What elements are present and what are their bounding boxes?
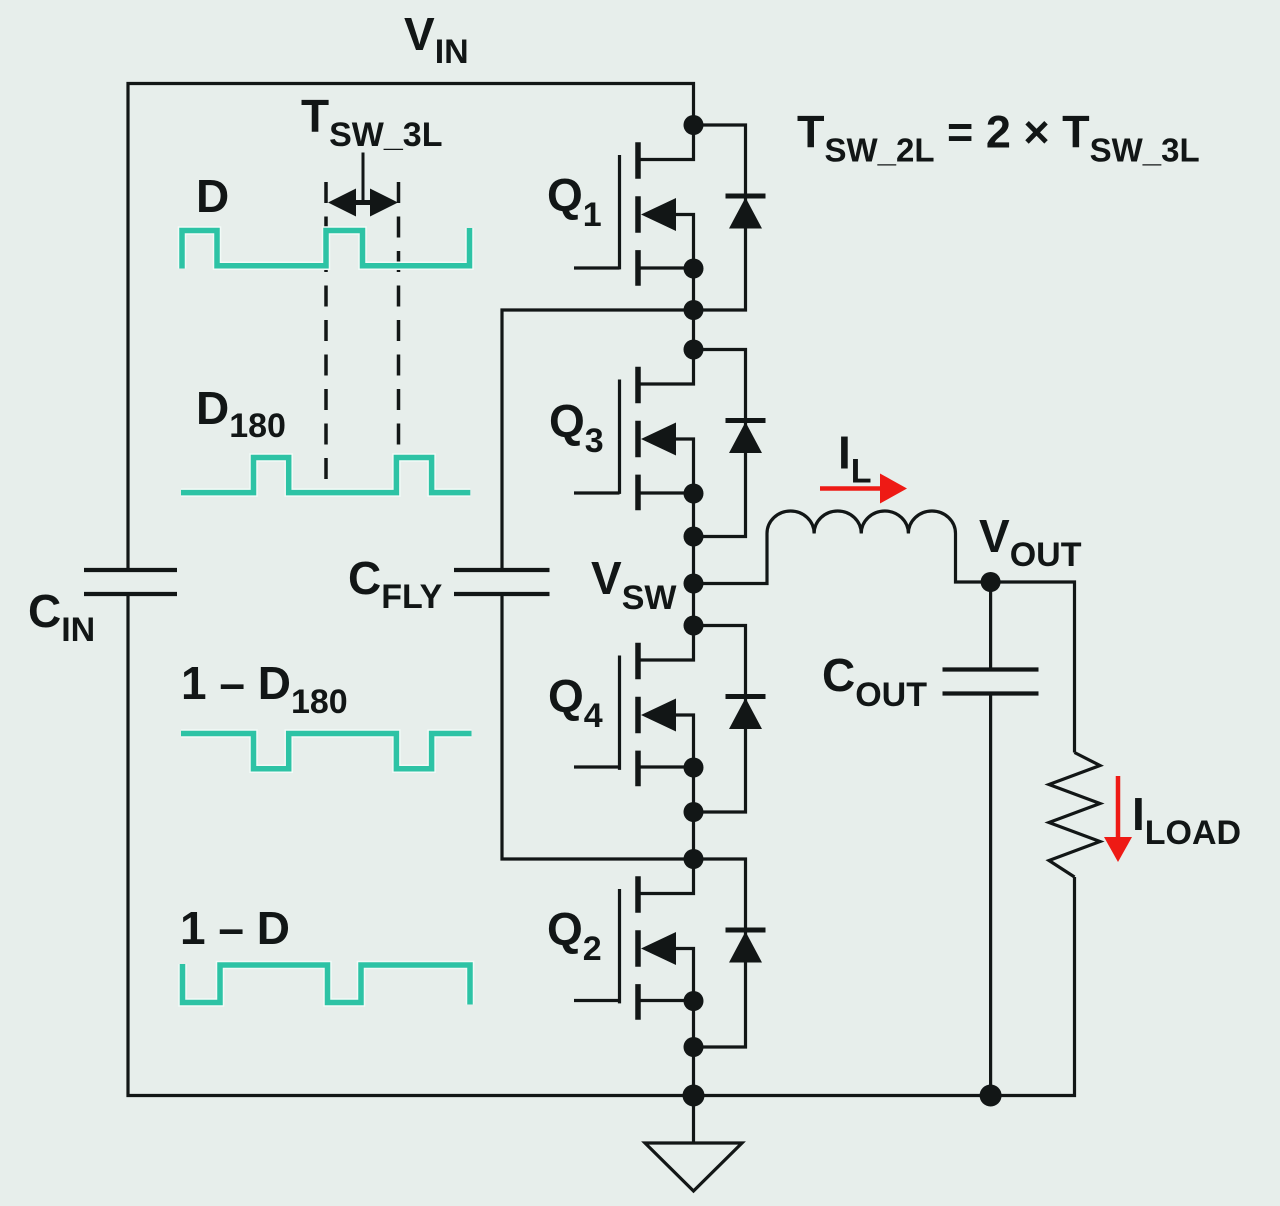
svg-text:1 – D: 1 – D [180, 902, 290, 954]
node Q2 source [684, 991, 704, 1011]
transistor Q2 [574, 859, 694, 1020]
wire Q4 diode junction to CFLY bottom node [692, 812, 695, 859]
node Q3 source [684, 484, 704, 504]
transistor Q1 [574, 125, 694, 286]
node ground rail [683, 1085, 705, 1107]
node CFLY top junction [684, 300, 704, 320]
wire VOUT node to load branch [991, 582, 1075, 753]
node Q4 source [684, 758, 704, 778]
wire COUT vertical upper [989, 582, 992, 670]
node Q2 drain (CFLY bottom) [684, 849, 704, 869]
capacitor CIN [84, 570, 177, 594]
wire Q1 source to CFLY top node [692, 269, 695, 311]
resistor load [1049, 753, 1100, 878]
node Q1 source [684, 259, 704, 279]
waveform 1-D [183, 964, 471, 1005]
wire CFLY top branch [502, 310, 694, 570]
transistor Q4 [574, 626, 694, 787]
body diode of Q1 [694, 125, 766, 310]
pointer line TSW_3L label [362, 153, 365, 204]
wire VSW node to Q4 drain [692, 584, 695, 626]
double arrow TSW_3L [328, 189, 398, 217]
current arrow IL [820, 474, 907, 504]
wire Q2 diode junction to ground rail [692, 1047, 695, 1096]
wire COUT vertical lower [989, 694, 992, 1096]
waveform D180 [181, 458, 470, 493]
waveform D [182, 228, 470, 269]
wire CFLY bottom branch [502, 594, 694, 859]
capacitor CFLY [454, 570, 550, 594]
body diode of Q3 [694, 350, 766, 537]
wire bottom ground rail [128, 594, 1075, 1096]
waveform 1-D180 [181, 734, 472, 769]
body diode of Q4 [694, 626, 766, 813]
wire VIN top rail [128, 84, 694, 571]
dashed line TSW right [397, 182, 401, 455]
body diode of Q2 [694, 859, 766, 1047]
node VOUT [981, 572, 1001, 592]
inductor L [767, 511, 956, 534]
svg-text:D: D [196, 170, 229, 222]
node VSW [684, 574, 704, 594]
wire inductor to VOUT node [956, 534, 991, 583]
wire Q4 source to Q4 diode junction [692, 768, 695, 813]
node COUT ground [980, 1085, 1002, 1107]
node Q2 diode junction [684, 1037, 704, 1057]
dashed line TSW left [324, 182, 328, 490]
wire Q3 diode junction to VSW node [692, 537, 695, 584]
node Q1 drain (VIN) [684, 115, 704, 135]
node Q3 drain [684, 340, 704, 360]
wire Q3 source to Q3 diode junction [692, 494, 695, 537]
node Q3 diode junction [684, 527, 704, 547]
wire VSW to inductor [694, 534, 768, 584]
capacitor COUT [943, 670, 1039, 694]
wire Q2 source to Q2 diode junction [692, 1001, 695, 1047]
node Q4 diode junction [684, 802, 704, 822]
node Q4 drain [684, 616, 704, 636]
transistor Q3 [574, 350, 694, 511]
ground [645, 1096, 742, 1192]
current arrow ILOAD [1104, 776, 1132, 862]
wire CFLY top node to Q3 drain [692, 310, 695, 350]
